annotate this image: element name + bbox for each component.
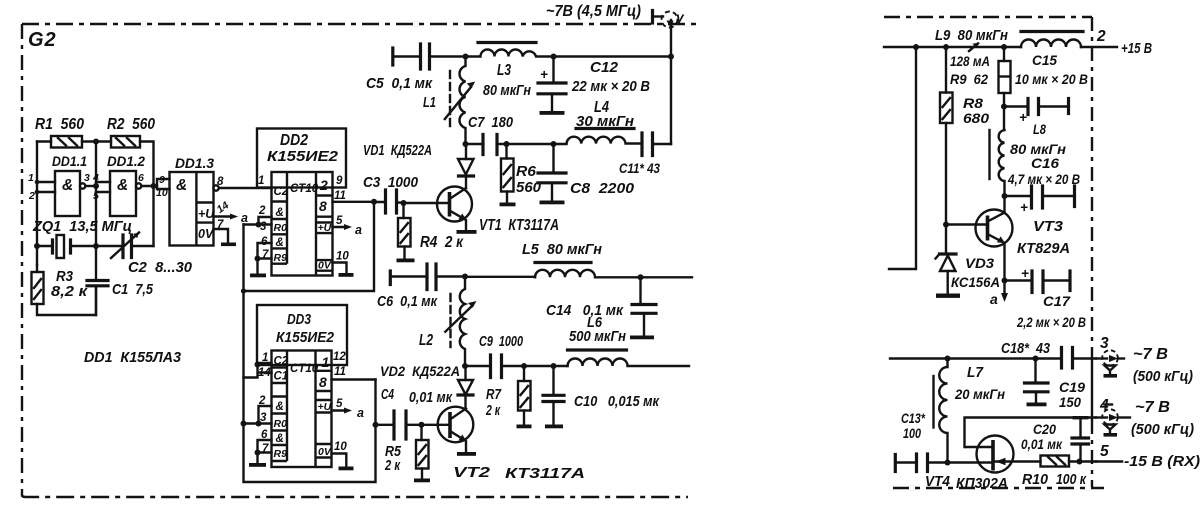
transistor VT3 [943, 196, 1070, 281]
svg-text:C2 8...30: C2 8...30 [128, 259, 193, 276]
svg-text:-15 В (RX): -15 В (RX) [1124, 454, 1200, 470]
capacitor C6 [377, 264, 465, 310]
svg-text:R8: R8 [963, 95, 983, 111]
svg-text:DD1.3: DD1.3 [175, 155, 214, 171]
ground (VT2 emitter) [457, 452, 476, 456]
DD2 pin 10 to ground [333, 251, 350, 273]
svg-text:1: 1 [28, 172, 34, 184]
wire: bottom return of oscillator [37, 287, 96, 316]
DD2 pin 3 R0 input wire [244, 221, 272, 233]
capacitor C1 [87, 246, 154, 315]
wire: L5 to right edge [641, 276, 693, 278]
resistor R1 [35, 116, 96, 148]
svg-text:R9 62: R9 62 [950, 71, 988, 87]
wire: L3 to output rail [554, 55, 672, 57]
svg-text:КТ3117А: КТ3117А [505, 465, 585, 482]
crystal ZQ1 [32, 218, 132, 258]
wire: feedback vertical R1 to gate output [95, 142, 97, 247]
pin 4 connector output [1096, 397, 1130, 437]
resistor R10 [1022, 456, 1096, 489]
capacitor C8 [538, 144, 635, 200]
DD3 pins 1,14 clock inputs [244, 352, 272, 379]
svg-text:a: a [241, 211, 248, 225]
counter DD2 designator box [257, 129, 346, 188]
svg-text:L8: L8 [1033, 121, 1046, 137]
DD1.3 output pin 8 [213, 176, 271, 191]
svg-text:КС156А: КС156А [951, 275, 1000, 290]
svg-text:2: 2 [28, 190, 35, 202]
capacitor C7 [466, 114, 514, 155]
svg-text:C16: C16 [1031, 155, 1059, 171]
svg-text:L1: L1 [423, 94, 436, 111]
G2 block dash-dot border [22, 24, 700, 497]
wire: lower section top rail [890, 356, 1062, 362]
svg-text:11: 11 [334, 190, 346, 202]
wire: output rail up to connector [670, 20, 672, 144]
capacitor C13 [895, 411, 947, 472]
capacitor C16 (electrolytic) [1005, 155, 1081, 215]
svg-text:DD1 К155ЛА3: DD1 К155ЛА3 [84, 349, 182, 366]
svg-text:&: & [276, 237, 284, 249]
svg-text:a: a [357, 406, 364, 420]
svg-text:+: + [1019, 110, 1027, 125]
svg-text:L5 80 мкГн: L5 80 мкГн [522, 241, 602, 258]
transistor VT4 (FET) [925, 436, 1041, 493]
inductor L7 [934, 359, 1006, 463]
svg-text:G2: G2 [28, 29, 57, 51]
svg-text:2,2 мк × 20 В: 2,2 мк × 20 В [1016, 315, 1086, 330]
capacitor C5 [366, 44, 466, 92]
svg-text:C13*: C13* [901, 411, 926, 426]
ground (C12) [540, 111, 565, 115]
svg-text:10: 10 [336, 251, 349, 263]
capacitor C2 (trimmer) [96, 233, 193, 277]
svg-text:C15: C15 [1032, 52, 1057, 68]
wire: DD3 feedback loop [244, 380, 379, 483]
svg-text:R7: R7 [486, 386, 502, 403]
svg-text:+U: +U [318, 401, 332, 413]
svg-text:+: + [540, 67, 548, 82]
svg-text:КТ829А: КТ829А [1017, 240, 1070, 257]
svg-text:C1: C1 [274, 371, 289, 383]
DD1.3 pin 14 and node a arrow [214, 199, 249, 225]
svg-text:C3 1000: C3 1000 [363, 174, 419, 191]
svg-text:128 мА: 128 мА [950, 53, 990, 69]
capacitor C18 [1001, 341, 1096, 368]
junction C6/L2/L5 wire [462, 274, 468, 280]
svg-text:8,2 к: 8,2 к [51, 283, 89, 300]
svg-text:VD3: VD3 [965, 255, 994, 271]
svg-text:DD3: DD3 [287, 311, 312, 328]
svg-text:9: 9 [159, 174, 165, 186]
ground (R7) [517, 425, 532, 429]
svg-text:14: 14 [215, 199, 232, 216]
counter DD3 designator box [257, 305, 347, 365]
wire: C4 to VT2 base [422, 424, 451, 426]
svg-text:3: 3 [260, 412, 267, 424]
svg-text:0,01 мк: 0,01 мк [1021, 437, 1063, 452]
ground (C14) [630, 336, 654, 340]
DD1.3 pin 7 to ground [214, 219, 229, 242]
svg-text:L3: L3 [497, 62, 511, 79]
DD3 pin 3 R0 input wire [241, 412, 272, 427]
svg-text:R1 560: R1 560 [35, 116, 84, 133]
capacitor C9 [465, 334, 524, 378]
zener diode VD3 [936, 254, 1001, 293]
svg-text:a: a [990, 291, 998, 307]
svg-text:2: 2 [1096, 28, 1106, 45]
junction dots oscillator [93, 139, 99, 145]
pin 3 connector output [1096, 335, 1124, 378]
svg-text:150: 150 [1059, 394, 1081, 410]
gate DD1.1 [28, 153, 96, 216]
resistor R7 [485, 366, 530, 424]
svg-text:КП302А: КП302А [956, 476, 1008, 492]
DD2 pin 2 input [256, 205, 272, 228]
svg-text:14: 14 [258, 367, 271, 379]
svg-text:&: & [176, 177, 187, 194]
inductor L3 [466, 43, 554, 100]
svg-text:2 к: 2 к [384, 457, 401, 474]
svg-text:&: & [276, 401, 284, 413]
svg-text:0,01 мк: 0,01 мк [409, 390, 453, 406]
svg-text:y: y [675, 9, 685, 25]
svg-text:C2: C2 [274, 186, 289, 198]
svg-text:4: 4 [92, 172, 99, 184]
inductor L1 (tuned) [423, 57, 475, 145]
svg-text:C4: C4 [381, 387, 394, 403]
DD3 pin 10 to ground [332, 441, 348, 466]
svg-text:~7 В: ~7 В [1135, 399, 1170, 416]
svg-text:10: 10 [334, 441, 347, 453]
ground (R6) [500, 203, 516, 207]
ground (DD3 pin10) [339, 467, 354, 471]
resistor R4 [398, 203, 464, 258]
svg-text:К155ИЕ2: К155ИЕ2 [276, 330, 334, 346]
svg-text:CT10: CT10 [290, 363, 319, 375]
svg-text:C18* 43: C18* 43 [1001, 341, 1050, 357]
ground (R5) [414, 479, 430, 483]
wire: oscillator left rail [36, 142, 38, 266]
svg-text:80 мкГн: 80 мкГн [483, 83, 531, 99]
svg-text:5: 5 [336, 398, 343, 410]
DD3 pin 5 node a arrow [332, 398, 365, 420]
ground (C8) [540, 201, 565, 205]
svg-text:VD1 КД522А: VD1 КД522А [363, 142, 432, 159]
ground (DD2 pins 6,7) [250, 274, 266, 278]
wire: +15V rail [884, 44, 1117, 50]
svg-text:C5 0,1 мк: C5 0,1 мк [366, 75, 433, 92]
capacitor C15 (electrolytic) [1004, 52, 1088, 125]
svg-text:30 мкГн: 30 мкГн [576, 113, 634, 130]
svg-text:ZQ1 13,5 МГц: ZQ1 13,5 МГц [32, 218, 132, 235]
svg-text:0V: 0V [318, 446, 332, 458]
svg-text:C12: C12 [590, 59, 619, 76]
svg-text:12: 12 [333, 351, 346, 363]
svg-text:C17: C17 [1043, 293, 1071, 309]
output connector (to y) [653, 9, 686, 29]
capacitor C17 (electrolytic) [1005, 266, 1087, 330]
transistor VT2 [438, 407, 585, 482]
svg-text:R0: R0 [274, 222, 288, 234]
junction L1/C7/VD1 [463, 141, 469, 147]
wire: C2 right to gate3 input [152, 186, 154, 246]
svg-text:500 мкГн: 500 мкГн [569, 329, 626, 345]
svg-text:R0: R0 [274, 418, 288, 430]
inductor L2 (tuned) [419, 277, 477, 367]
svg-text:+: + [1021, 266, 1029, 281]
svg-text:3: 3 [260, 221, 267, 233]
svg-text:0V: 0V [318, 260, 332, 272]
svg-text:&: & [276, 433, 284, 445]
svg-text:VT4: VT4 [925, 474, 950, 490]
svg-text:100 к: 100 к [1056, 472, 1087, 488]
svg-text:7: 7 [217, 219, 224, 231]
svg-text:C2: C2 [274, 356, 289, 368]
resistor R5 [384, 425, 428, 478]
gate DD1.3 [170, 155, 216, 246]
svg-text:C8 2200: C8 2200 [570, 180, 635, 197]
svg-text:2: 2 [319, 177, 328, 193]
svg-text:2: 2 [258, 205, 266, 217]
svg-text:~7В (4,5 МГц): ~7В (4,5 МГц) [546, 3, 641, 20]
svg-text:6: 6 [261, 236, 268, 248]
wire: left vertical to lower stub [889, 47, 916, 269]
svg-text:6: 6 [138, 172, 144, 184]
svg-text:+15 В: +15 В [1121, 41, 1152, 57]
capacitor C11 [619, 133, 671, 176]
svg-text:DD1.1: DD1.1 [52, 153, 87, 169]
svg-text:a: a [355, 223, 362, 237]
svg-text:10 мк × 20 В: 10 мк × 20 В [1015, 72, 1088, 87]
svg-text:5: 5 [93, 190, 99, 202]
svg-text:+: + [1020, 200, 1028, 215]
svg-text:~7 В: ~7 В [1133, 346, 1168, 363]
svg-text:L9 80 мкГн: L9 80 мкГн [935, 28, 1008, 44]
wire: C7 node to L4 [507, 143, 567, 145]
svg-text:2 к: 2 к [485, 402, 501, 419]
ground (C10) [545, 425, 563, 429]
svg-text:1: 1 [262, 352, 268, 364]
svg-text:C10 0,015 мк: C10 0,015 мк [574, 393, 660, 410]
svg-text:VT2: VT2 [453, 464, 491, 481]
counter DD3 body CT10 [272, 351, 332, 468]
DD3 pin 11 output wire [332, 366, 376, 380]
resistor R2 [96, 116, 155, 186]
svg-text:9: 9 [336, 175, 343, 187]
svg-text:8: 8 [319, 374, 327, 390]
wire: pin 4 line [965, 418, 1097, 448]
svg-text:C6 0,1 мк: C6 0,1 мк [377, 294, 438, 310]
svg-text:2: 2 [258, 395, 266, 407]
svg-text:C9 1000: C9 1000 [479, 334, 523, 350]
ground (VD3) [936, 294, 960, 298]
DD2 pin 11 output wire [333, 190, 375, 202]
counter DD2 body CT10 [272, 172, 333, 276]
svg-text:L7: L7 [967, 365, 984, 381]
svg-text:11: 11 [334, 366, 346, 378]
resistor R9 [950, 47, 1011, 130]
svg-text:8: 8 [319, 198, 327, 214]
diode VD1 [363, 142, 474, 188]
svg-text:7: 7 [262, 249, 269, 261]
svg-text:100: 100 [903, 426, 921, 441]
svg-text:C1 7,5: C1 7,5 [112, 281, 154, 298]
ground (R4) [397, 259, 415, 263]
resistor R6 [501, 144, 542, 202]
svg-text:+U: +U [198, 207, 215, 221]
svg-text:8: 8 [217, 176, 224, 188]
svg-text:R6: R6 [516, 163, 537, 180]
gate DD1.2 [92, 153, 157, 216]
DD2 pins 6,7 to ground [255, 236, 272, 274]
wire: gate line L7/C13 to VT4 [948, 461, 994, 463]
svg-text:DD1.2: DD1.2 [107, 153, 145, 169]
inductor L9 [935, 28, 1083, 47]
svg-text:7: 7 [262, 443, 269, 455]
ground (VT1 emitter) [457, 230, 477, 234]
ground (C19) [1027, 403, 1047, 407]
svg-text:R4 2 к: R4 2 к [420, 234, 464, 251]
svg-text:VT1 КТ3117А: VT1 КТ3117А [479, 217, 559, 234]
svg-text:&: & [276, 207, 284, 219]
wire: DD2 R0 column down to DD3 clock [242, 291, 244, 424]
svg-text:R9: R9 [274, 252, 288, 264]
svg-text:3: 3 [1100, 335, 1109, 352]
ground (DD1.3 pin7) [221, 243, 236, 247]
svg-text:(500 кГц): (500 кГц) [1131, 422, 1194, 438]
junction node C5/L1/L3 [463, 54, 469, 60]
diode VD2 [380, 363, 473, 409]
capacitor C19 [1025, 359, 1086, 411]
wire: DD2 feedback loop output to R0 [241, 199, 377, 294]
svg-text:R9: R9 [274, 448, 288, 460]
capacitor C3 [363, 174, 419, 213]
svg-text:1: 1 [322, 354, 330, 370]
transistor VT1 [437, 187, 559, 235]
svg-text:5: 5 [336, 215, 343, 227]
capacitor C4 [376, 387, 453, 439]
inductor L4 [567, 99, 643, 144]
svg-text:C7 180: C7 180 [468, 114, 514, 131]
svg-text:20 мкГн: 20 мкГн [954, 387, 1005, 402]
right module dash-dot border [884, 17, 1104, 488]
svg-text:22 мк × 20 В: 22 мк × 20 В [571, 79, 650, 95]
inductor L8 [990, 121, 1067, 196]
inductor L6 [568, 314, 690, 366]
DD1.3 input pins 9,10 [156, 174, 170, 199]
DD3 pins 6,7 to ground [255, 429, 272, 463]
wire: C3 to VT1 base [404, 202, 450, 204]
svg-text:C11* 43: C11* 43 [619, 160, 660, 176]
svg-text:VT3: VT3 [1033, 218, 1064, 235]
svg-text:10: 10 [156, 187, 168, 199]
svg-text:(500 кГц): (500 кГц) [1133, 369, 1193, 385]
node a arrow (VT3 emitter) [990, 281, 1008, 308]
resistor R8 [940, 47, 989, 253]
wire: R7 node to L6 [524, 365, 568, 367]
svg-text:C19: C19 [1059, 379, 1085, 395]
svg-text:&: & [117, 177, 128, 194]
current arrow 128 mA [950, 43, 990, 70]
svg-text:+U: +U [318, 222, 332, 234]
svg-text:DD2: DD2 [280, 132, 308, 149]
svg-text:C14 0,1 мк: C14 0,1 мк [546, 302, 624, 319]
svg-text:R2 560: R2 560 [107, 116, 155, 133]
resistor R3 [32, 265, 89, 304]
pin 5 wire and label [1096, 443, 1122, 462]
svg-text:L2: L2 [419, 332, 433, 349]
ground (DD2 pin10) [339, 273, 354, 277]
svg-text:CT10: CT10 [290, 183, 319, 195]
wire: middle rail to L5 [465, 276, 535, 278]
ground (DD3 pins 6,7) [249, 463, 266, 467]
junction L2/C9/VD2 [462, 363, 468, 369]
svg-text:C20: C20 [1033, 422, 1056, 437]
capacitor C10 [543, 366, 660, 424]
svg-text:VD2 КД522А: VD2 КД522А [380, 363, 460, 379]
svg-text:6: 6 [261, 429, 268, 441]
svg-text:R10: R10 [1022, 472, 1048, 488]
svg-text:680: 680 [963, 110, 989, 126]
svg-text:3: 3 [84, 172, 90, 184]
inductor L5 [522, 241, 641, 277]
svg-text:1: 1 [258, 175, 264, 187]
DD2 pin 5 node a arrow [333, 215, 363, 237]
svg-text:4,7 мк × 20 В: 4,7 мк × 20 В [1007, 172, 1080, 187]
svg-text:К155ИЕ2: К155ИЕ2 [267, 148, 339, 165]
svg-text:&: & [62, 177, 73, 194]
svg-text:5: 5 [1100, 443, 1109, 460]
DD3 pin 2 input [256, 395, 272, 427]
capacitor C12 (electrolytic) [538, 57, 650, 111]
capacitor C14 [546, 277, 656, 335]
capacitor C20 [1021, 416, 1089, 462]
